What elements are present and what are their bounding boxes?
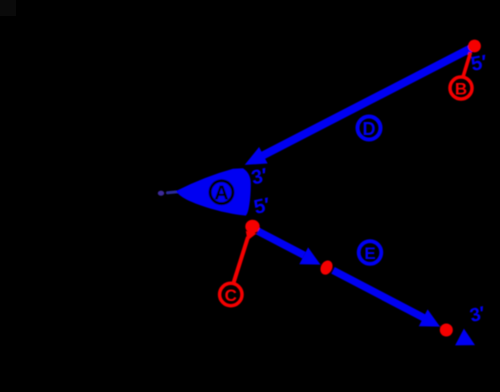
circled label E (lower strand)	[359, 241, 382, 264]
leader line from teardrop to circle C	[234, 237, 249, 283]
enzyme tail (thin fading line at tip)	[168, 192, 179, 193]
lower strand segment 1	[258, 231, 304, 255]
dim tail dot	[158, 191, 164, 196]
red primer teardrop at start of lower strand	[245, 220, 259, 234]
circled label B	[450, 77, 472, 99]
leader line from primer dot to circle B	[463, 53, 471, 78]
svg-text:D: D	[363, 119, 376, 139]
svg-text:E: E	[364, 244, 375, 263]
svg-text:B: B	[455, 79, 467, 98]
circled label D (upper strand)	[358, 117, 381, 140]
red primer dot at 5' end of upper strand	[468, 40, 481, 53]
lower strand segment 2	[333, 270, 426, 319]
circled label C	[220, 283, 242, 305]
segment 1 arrowhead	[299, 247, 320, 264]
enzyme body (blue cone / polymerase)	[176, 168, 251, 215]
upper strand (template strand) line	[261, 48, 471, 156]
lower strand final arrowhead	[455, 329, 475, 346]
red primer dot near end of lower strand	[440, 324, 453, 337]
svg-text:C: C	[225, 286, 237, 305]
svg-text:A: A	[214, 183, 228, 205]
faint corner square	[0, 0, 16, 16]
segment 2 arrowhead	[419, 309, 440, 326]
upper strand arrowhead (points down-left toward enzyme)	[245, 147, 268, 165]
red primer oval on lower strand	[318, 258, 335, 276]
circled label A inside enzyme	[210, 181, 233, 204]
